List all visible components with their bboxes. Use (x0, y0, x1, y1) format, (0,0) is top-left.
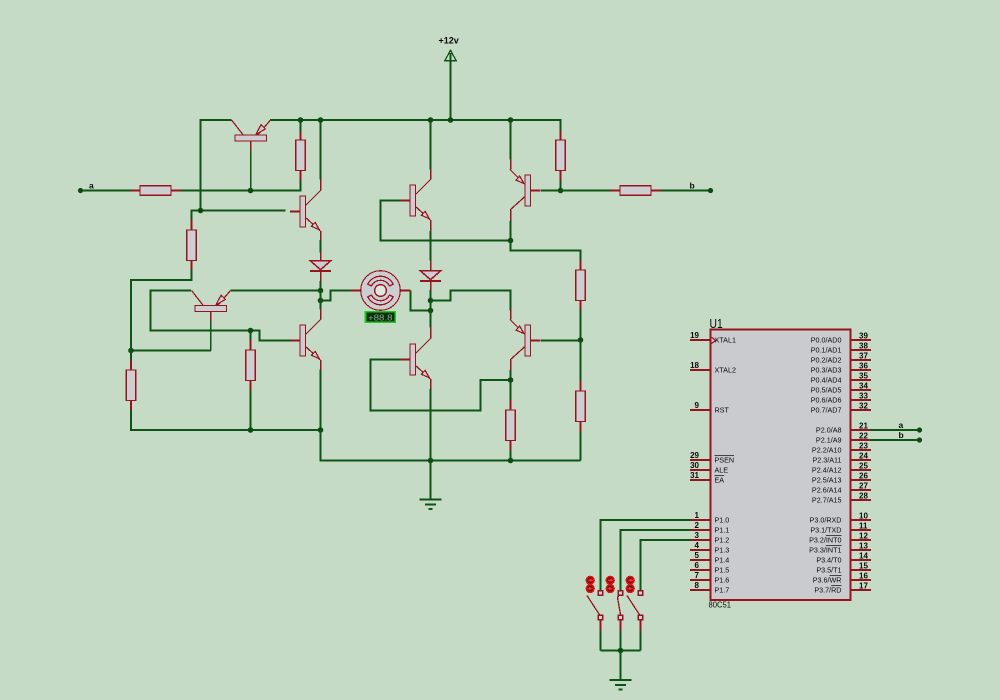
resistor R3 (187, 230, 196, 261)
svg-text:P2.1/A9: P2.1/A9 (816, 435, 842, 444)
wire bottom bus (321, 430, 581, 461)
transistor Q4 (PNP) (525, 175, 531, 206)
svg-text:P0.6/AD6: P0.6/AD6 (811, 395, 842, 404)
motor right pin (400, 290, 410, 292)
wire Q7 base path (371, 360, 511, 411)
svg-text:P0.1/AD1: P0.1/AD1 (811, 345, 842, 354)
svg-text:37: 37 (859, 352, 868, 361)
svg-text:P3.4/T0: P3.4/T0 (816, 555, 841, 564)
svg-text:P2.7/A15: P2.7/A15 (812, 495, 842, 504)
junction Q4 emitter on rail (508, 117, 514, 123)
U1 pin 30 (ALE) (690, 469, 711, 471)
U1 pin 12 (P3.2/INT0) (851, 539, 872, 541)
U1 pin 28 (P2.7/A15) (851, 499, 872, 501)
svg-text:P3.3/INT1: P3.3/INT1 (809, 545, 841, 554)
svg-text:21: 21 (859, 422, 868, 431)
svg-text:XTAL2: XTAL2 (715, 365, 736, 374)
resistor R1 (140, 186, 171, 195)
switch SW2 (606, 576, 614, 584)
wire switch bus (601, 650, 641, 652)
ground symbol right (610, 679, 632, 681)
wire Q3 emitter to D2 (430, 231, 432, 261)
svg-text:P3.6/WR: P3.6/WR (813, 575, 842, 584)
svg-text:P2.3/A11: P2.3/A11 (812, 455, 841, 464)
wire Q1 collector to Q2 base / R3 node (201, 120, 286, 211)
motor top brush arc (368, 276, 393, 286)
U1 pin 8 (P1.7) (690, 589, 711, 591)
wire Q6 collector red tail (320, 309, 322, 320)
junction Q3 collector on rail (428, 117, 434, 123)
wire R6 bottom to left bus (131, 410, 321, 430)
svg-text:29: 29 (690, 451, 699, 460)
diode D1 (310, 261, 331, 270)
wire Q4 collector (510, 221, 512, 241)
motor M body (361, 271, 401, 311)
svg-text:36: 36 (859, 362, 868, 371)
U1 pin 18 (XTAL2) (690, 369, 711, 371)
wire P1.0 to switch SW1 (601, 520, 691, 591)
junction motor-right lower (428, 308, 434, 314)
svg-text:19: 19 (690, 331, 699, 340)
svg-text:17: 17 (859, 582, 868, 591)
wire R8 top (510, 380, 512, 401)
wire SW2 to switch bus (620, 631, 622, 651)
U1 pin 35 (P0.4/AD4) (851, 379, 872, 381)
svg-text:10: 10 (859, 512, 868, 521)
svg-text:39: 39 (859, 332, 868, 341)
svg-text:12: 12 (859, 532, 868, 541)
svg-text:1: 1 (695, 511, 700, 520)
svg-text:9: 9 (695, 401, 700, 410)
junction Q2 collector on rail (318, 117, 324, 123)
wire SW3 to switch bus (640, 631, 642, 651)
wire Q7 collector red tail (430, 327, 432, 339)
svg-text:EA: EA (715, 475, 725, 484)
wire ground stem (430, 461, 432, 500)
svg-text:18: 18 (690, 361, 699, 370)
svg-text:25: 25 (859, 462, 868, 471)
U1 pin 21 (P2.0/A8) (851, 429, 872, 431)
wire node B to R5 (561, 190, 611, 192)
junction Q8 base node (578, 337, 584, 343)
svg-text:P1.1: P1.1 (715, 525, 730, 534)
terminal a (78, 188, 83, 193)
svg-text:P0.7/AD7: P0.7/AD7 (811, 405, 842, 414)
transistor Q7 (NPN) (410, 344, 416, 375)
junction motor-left lower (318, 298, 324, 304)
resistor R8 (506, 410, 515, 441)
svg-text:P1.6: P1.6 (715, 575, 730, 584)
transistor Q8 (PNP) (525, 325, 531, 356)
wire P2.1 to terminal b (871, 439, 918, 441)
resistor R4 (556, 140, 565, 171)
U1 pin 34 (P0.5/AD5) (851, 389, 872, 391)
svg-text:32: 32 (859, 402, 868, 411)
junction motor-right upper (428, 298, 434, 304)
svg-text:P2.2/A10: P2.2/A10 (812, 445, 842, 454)
wire R8 bottom to bus (510, 451, 512, 461)
U1 pin 15 (P3.5/T1) (851, 569, 872, 571)
motor bottom brush arc (368, 295, 393, 305)
resistor R5 (620, 186, 651, 195)
svg-text:P0.4/AD4: P0.4/AD4 (811, 375, 842, 384)
wire Q8 emitter red tail (510, 309, 512, 320)
svg-text:b: b (690, 181, 695, 191)
svg-text:ALE: ALE (715, 465, 729, 474)
svg-text:a: a (89, 181, 94, 191)
junction Q5 base / R3 / R6 node (128, 348, 134, 354)
U1 pin 39 (P0.0/AD0) (851, 339, 872, 341)
resistor R2 (296, 140, 305, 171)
svg-text:a: a (899, 420, 904, 430)
junction Q4 collector / Q3 base / R9 (508, 238, 514, 244)
wire P1.1 to switch SW2 (621, 530, 691, 591)
junction +12V stem on rail (448, 117, 454, 123)
motor shaft circle (375, 285, 387, 297)
svg-text:P0.0/AD0: P0.0/AD0 (811, 335, 842, 344)
transistor Q1 (PNP) (235, 135, 267, 141)
svg-text:15: 15 (859, 562, 868, 571)
svg-text:RST: RST (715, 405, 730, 414)
ground symbol left (420, 499, 442, 501)
wire Q6 emitter (320, 370, 322, 431)
wire D1 to motor-left node (320, 281, 322, 291)
wire Q2 collector (320, 120, 322, 180)
svg-text:26: 26 (859, 472, 868, 481)
resistor R6 (126, 370, 135, 401)
wire Q5 base (210, 321, 212, 351)
svg-text:+12v: +12v (439, 36, 459, 46)
svg-text:23: 23 (859, 442, 868, 451)
U1 pin 29 (PSEN) (690, 459, 711, 461)
svg-text:P2.6/A14: P2.6/A14 (812, 485, 842, 494)
wire motor-left lower to Q6 collector (320, 301, 322, 310)
U1 pin 19 (XTAL1) (690, 339, 711, 341)
wire switch bus to ground (620, 651, 622, 681)
U1 pin 4 (P1.3) (690, 549, 711, 551)
junction Q6 emitter on bus (318, 427, 324, 433)
U1 pin 14 (P3.4/T0) (851, 559, 872, 561)
svg-text:3: 3 (695, 531, 700, 540)
svg-text:b: b (899, 430, 904, 440)
power +12V symbol (445, 50, 456, 61)
wire R5 to terminal b (661, 190, 711, 192)
junction node A (a / Q1 base) (248, 188, 254, 194)
junction node B (Q4 base) (558, 188, 564, 194)
terminal b (708, 188, 713, 193)
svg-text:P1.7: P1.7 (715, 585, 730, 594)
svg-text:34: 34 (859, 382, 868, 391)
U1 pin 6 (P1.5) (690, 569, 711, 571)
U1 chip body (80C51) (711, 330, 851, 601)
svg-text:P1.3: P1.3 (715, 545, 730, 554)
svg-text:P1.4: P1.4 (715, 555, 730, 564)
U1 pin 26 (P2.5/A13) (851, 479, 872, 481)
svg-text:31: 31 (690, 471, 699, 480)
svg-text:P0.3/AD3: P0.3/AD3 (811, 365, 842, 374)
junction switch bus (618, 648, 624, 654)
U1 pin 2 (P1.1) (690, 529, 711, 531)
wire Q5 collector path (151, 291, 251, 331)
wire R7 bottom to bus (250, 391, 252, 431)
svg-text:6: 6 (695, 561, 700, 570)
junction R7 on bus (248, 427, 254, 433)
wire node to R9 (511, 241, 581, 261)
svg-text:PSEN: PSEN (715, 455, 735, 464)
wire R10 top (580, 340, 582, 382)
U1 pin 36 (P0.3/AD3) (851, 369, 872, 371)
motor speed display (366, 312, 396, 323)
wire R4 bottom to node B (560, 181, 562, 191)
svg-text:P3.0/RXD: P3.0/RXD (810, 515, 842, 524)
transistor Q5 (PNP) (195, 306, 227, 312)
wire R2 top (300, 120, 302, 132)
resistor R9 (576, 270, 585, 301)
U1 pin 10 (P3.0/RXD) (851, 519, 872, 521)
wire Q7 emitter (430, 389, 432, 461)
wire a to R1 (83, 190, 131, 192)
wire top rail (270, 120, 561, 131)
wire R6 top (130, 351, 132, 361)
wire Q6 base step (251, 331, 291, 341)
wire SW1 to switch bus (600, 631, 602, 651)
junction R8 on bus (508, 458, 514, 464)
resistor R7 (246, 350, 255, 381)
wire motor right pin step (411, 291, 431, 311)
wire R3 bottom to Q5 base node (131, 270, 192, 351)
U1 pin 37 (P0.2/AD2) (851, 359, 872, 361)
transistor Q6 (NPN) (300, 325, 306, 356)
transistor Q2 (NPN) (300, 196, 306, 227)
terminal a (right) (917, 427, 922, 432)
junction node Q2 base (198, 208, 204, 214)
wire Q4 emitter (510, 120, 512, 160)
svg-text:13: 13 (859, 542, 868, 551)
U1 pin 24 (P2.3/A11) (851, 459, 872, 461)
svg-text:P1.2: P1.2 (715, 535, 730, 544)
U1 pin 16 (P3.6/WR) (851, 579, 872, 581)
wire R1 to node A / R2 bottom (181, 181, 301, 191)
wire motor-left to Q5 emitter (231, 290, 321, 292)
U1 pin 1 (P1.0) (690, 519, 711, 521)
svg-text:P3.1/TXD: P3.1/TXD (810, 525, 841, 534)
wire between motor-right junctions (430, 301, 432, 311)
junction ground stem (428, 458, 434, 464)
svg-text:28: 28 (859, 492, 868, 501)
wire P1.2 to switch SW3 (641, 540, 691, 591)
svg-text:P2.0/A8: P2.0/A8 (816, 425, 842, 434)
switch SW3 (626, 576, 634, 584)
junction Q6 base / R7 / Q5 collector (248, 328, 254, 334)
U1 pin 7 (P1.6) (690, 579, 711, 581)
svg-text:38: 38 (859, 342, 868, 351)
terminal b (right) (917, 437, 922, 442)
wire D2 to motor-right node (430, 290, 432, 301)
svg-text:U1: U1 (710, 316, 723, 331)
U1 pin 5 (P1.4) (690, 559, 711, 561)
svg-text:27: 27 (859, 482, 868, 491)
U1 pin 25 (P2.4/A12) (851, 469, 872, 471)
wire R10 bottom to ground bus (580, 432, 582, 461)
wire motor-right to Q8 emitter (431, 291, 511, 311)
svg-text:5: 5 (695, 551, 700, 560)
U1 XTAL1 clock marker (712, 337, 716, 343)
svg-text:P2.5/A13: P2.5/A13 (812, 475, 842, 484)
svg-text:7: 7 (695, 571, 700, 580)
wire Q2 emitter to D1 (320, 240, 322, 253)
svg-text:80C51: 80C51 (709, 601, 732, 610)
diode D2 (420, 271, 441, 280)
svg-text:P3.5/T1: P3.5/T1 (816, 565, 841, 574)
svg-text:30: 30 (690, 461, 699, 470)
svg-text:24: 24 (859, 452, 868, 461)
transistor Q3 (NPN) (410, 185, 416, 216)
svg-text:P1.5: P1.5 (715, 565, 730, 574)
wire between motor-left junctions (320, 291, 322, 301)
svg-text:33: 33 (859, 392, 868, 401)
svg-text:4: 4 (695, 541, 700, 550)
wire R7 top (250, 331, 252, 341)
svg-text:P1.0: P1.0 (715, 515, 730, 524)
wire Q1 base (250, 151, 252, 191)
U1 pin 38 (P0.1/AD1) (851, 349, 872, 351)
wire motor-right lower to Q7 collector (430, 311, 432, 328)
svg-text:16: 16 (859, 572, 868, 581)
U1 pin 9 (RST) (690, 409, 711, 411)
wire R9 bottom to Q8 base node (580, 310, 582, 340)
U1 pin 33 (P0.6/AD6) (851, 399, 872, 401)
U1 pin 27 (P2.6/A14) (851, 489, 872, 491)
svg-text:2: 2 (695, 521, 700, 530)
svg-text:+88.8: +88.8 (368, 314, 393, 323)
junction R2 top on rail (298, 117, 304, 123)
svg-text:P3.7/RD: P3.7/RD (814, 585, 841, 594)
switch SW1 (586, 576, 594, 584)
svg-text:35: 35 (859, 372, 868, 381)
junction motor-left upper (318, 288, 324, 294)
U1 pin 3 (P1.2) (690, 539, 711, 541)
U1 pin 22 (P2.1/A9) (851, 439, 872, 441)
svg-text:11: 11 (859, 522, 868, 531)
U1 pin 17 (P3.7/RD) (851, 589, 872, 591)
wire Q3 base path (381, 201, 511, 241)
svg-text:P2.4/A12: P2.4/A12 (812, 465, 842, 474)
junction Q8 collector / Q7 base / R8 (508, 377, 514, 383)
svg-text:P3.2/INT0: P3.2/INT0 (809, 535, 841, 544)
svg-text:XTAL1: XTAL1 (715, 335, 736, 344)
U1 pin 11 (P3.1/TXD) (851, 529, 872, 531)
motor left pin (350, 290, 361, 292)
svg-text:P0.2/AD2: P0.2/AD2 (811, 355, 842, 364)
wire Q8 base (541, 340, 581, 342)
svg-text:22: 22 (859, 432, 868, 441)
U1 pin 23 (P2.2/A10) (851, 449, 872, 451)
wire motor left pin step (321, 291, 351, 301)
svg-text:14: 14 (859, 552, 868, 561)
wire Q3 collector (430, 120, 432, 170)
wire Q4 base (541, 190, 561, 192)
U1 pin 13 (P3.3/INT1) (851, 549, 872, 551)
U1 pin 31 (EA) (690, 479, 711, 481)
U1 pin 32 (P0.7/AD7) (851, 409, 872, 411)
wire Q8 collector (510, 370, 512, 380)
wire P2.0 to terminal a (871, 429, 918, 431)
svg-text:P0.5/AD5: P0.5/AD5 (811, 385, 842, 394)
svg-text:8: 8 (695, 581, 700, 590)
resistor R10 (576, 391, 585, 422)
